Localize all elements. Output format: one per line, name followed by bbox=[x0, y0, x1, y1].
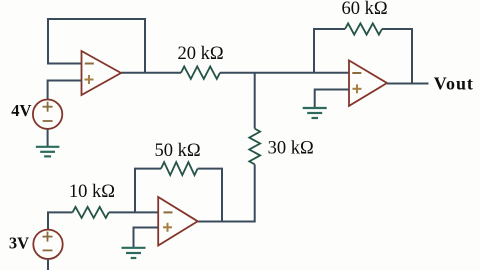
source V2 3V bbox=[33, 230, 62, 259]
wire: R1 to op-amp U2 inverting input (node A) bbox=[220, 72, 349, 74]
wire: V1 to ground bbox=[47, 129, 49, 147]
wire: U1 feedback loop bbox=[48, 19, 145, 73]
U1 plus pin symbol bbox=[85, 75, 94, 84]
svg-text:30 kΩ: 30 kΩ bbox=[268, 139, 314, 159]
source V1 4V bbox=[33, 100, 62, 129]
wire: U2 output bbox=[387, 83, 429, 85]
U2 plus pin symbol bbox=[353, 84, 362, 93]
resistor R1 20k zigzag bbox=[181, 67, 220, 79]
wire: R5 to op-amp U3 output bbox=[198, 164, 255, 221]
resistor R5 30k zigzag bbox=[249, 129, 260, 165]
wire: op-amp U1 output to R1 bbox=[121, 72, 181, 74]
ground G2 bbox=[303, 108, 327, 118]
U2 minus pin symbol bbox=[352, 72, 361, 74]
resistor R3 10k zigzag bbox=[73, 207, 109, 218]
wire: U3 feedback left side bbox=[135, 169, 161, 213]
op-amp U3 bbox=[158, 197, 198, 246]
resistor R2 60k zigzag bbox=[345, 23, 382, 34]
ground G3 bbox=[122, 248, 146, 258]
ground G1 bbox=[36, 147, 60, 157]
wire: U3 noninverting input to ground bbox=[134, 228, 159, 248]
op-amp U1 bbox=[82, 51, 122, 95]
svg-text:60 kΩ: 60 kΩ bbox=[342, 0, 388, 19]
wire: U1 noninverting input to 4V source bbox=[48, 81, 82, 100]
svg-text:3V: 3V bbox=[9, 233, 29, 252]
wire: V2 bottom stem bbox=[47, 259, 49, 270]
wire: 3V source to R3 bbox=[48, 212, 73, 229]
op-amp U2 bbox=[349, 60, 387, 106]
wire: R3 to op-amp U3 inverting input bbox=[109, 211, 158, 213]
wire: U2 noninverting input to ground bbox=[315, 90, 349, 108]
wire: U2 feedback right side to output bbox=[382, 29, 412, 84]
wire: U3 feedback right side to output bbox=[198, 169, 222, 222]
wire: U2 feedback left side bbox=[314, 29, 345, 73]
svg-text:Vout: Vout bbox=[434, 74, 474, 94]
U1 minus pin symbol bbox=[85, 63, 94, 65]
svg-text:10 kΩ: 10 kΩ bbox=[69, 182, 115, 202]
svg-text:50 kΩ: 50 kΩ bbox=[155, 141, 201, 161]
U3 minus pin symbol bbox=[164, 211, 173, 213]
U3 plus pin symbol bbox=[163, 223, 172, 232]
wire: node A down to R5 bbox=[254, 73, 256, 129]
svg-text:4V: 4V bbox=[11, 101, 31, 120]
svg-text:20 kΩ: 20 kΩ bbox=[178, 44, 224, 64]
resistor R4 50k zigzag bbox=[161, 162, 198, 175]
